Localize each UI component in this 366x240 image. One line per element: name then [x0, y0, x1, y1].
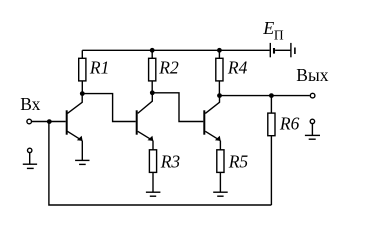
wire: feedback bottom rail [49, 122, 272, 205]
terminal+ground: right common terminal [305, 119, 320, 139]
resistor R1 [79, 50, 110, 93]
transistor Q2 [137, 93, 154, 150]
resistor R3 [149, 150, 180, 192]
svg-text:Вых: Вых [296, 65, 328, 85]
transistor Q3 [204, 96, 220, 150]
terminal: input Вх [27, 119, 32, 124]
node: R1/Q1 collector junction [80, 91, 85, 96]
node: R2 top junction [150, 48, 155, 53]
resistor R2 [149, 50, 179, 93]
node: R4 top junction [217, 48, 222, 53]
node: R6 top junction [269, 93, 274, 98]
resistor R4 [216, 50, 248, 95]
node: R4/Q3 collector output junction [217, 93, 222, 98]
battery Е_П (supply source) [262, 18, 295, 58]
svg-text:R6: R6 [279, 113, 300, 133]
svg-text:R3: R3 [160, 152, 181, 172]
wire: Q1 collector to Q2 base coupling [82, 94, 135, 122]
svg-text:П: П [274, 27, 284, 42]
svg-text:R4: R4 [227, 57, 248, 77]
wire: input to Q1 base [32, 121, 66, 123]
svg-text:Е: Е [262, 18, 274, 38]
resistor R6 [268, 96, 300, 205]
svg-text:R5: R5 [228, 152, 249, 172]
ground: under Q1 emitter [75, 160, 89, 164]
terminal: output Вых [296, 65, 328, 98]
resistor R5 [217, 150, 249, 192]
svg-text:R2: R2 [158, 57, 179, 77]
node: R2/Q2 collector junction [150, 90, 155, 95]
transistor Q1 [67, 94, 83, 161]
wire: Q2 collector to Q3 base coupling [152, 93, 203, 122]
node: input junction [47, 119, 52, 124]
svg-text:Вх: Вх [20, 94, 40, 114]
terminal+ground: left common terminal [23, 148, 37, 168]
ground: under R5 [213, 192, 228, 196]
wire: output node line [220, 95, 310, 97]
wire: top supply rail [82, 49, 269, 51]
ground: under R3 [146, 192, 161, 196]
svg-text:R1: R1 [89, 57, 109, 77]
